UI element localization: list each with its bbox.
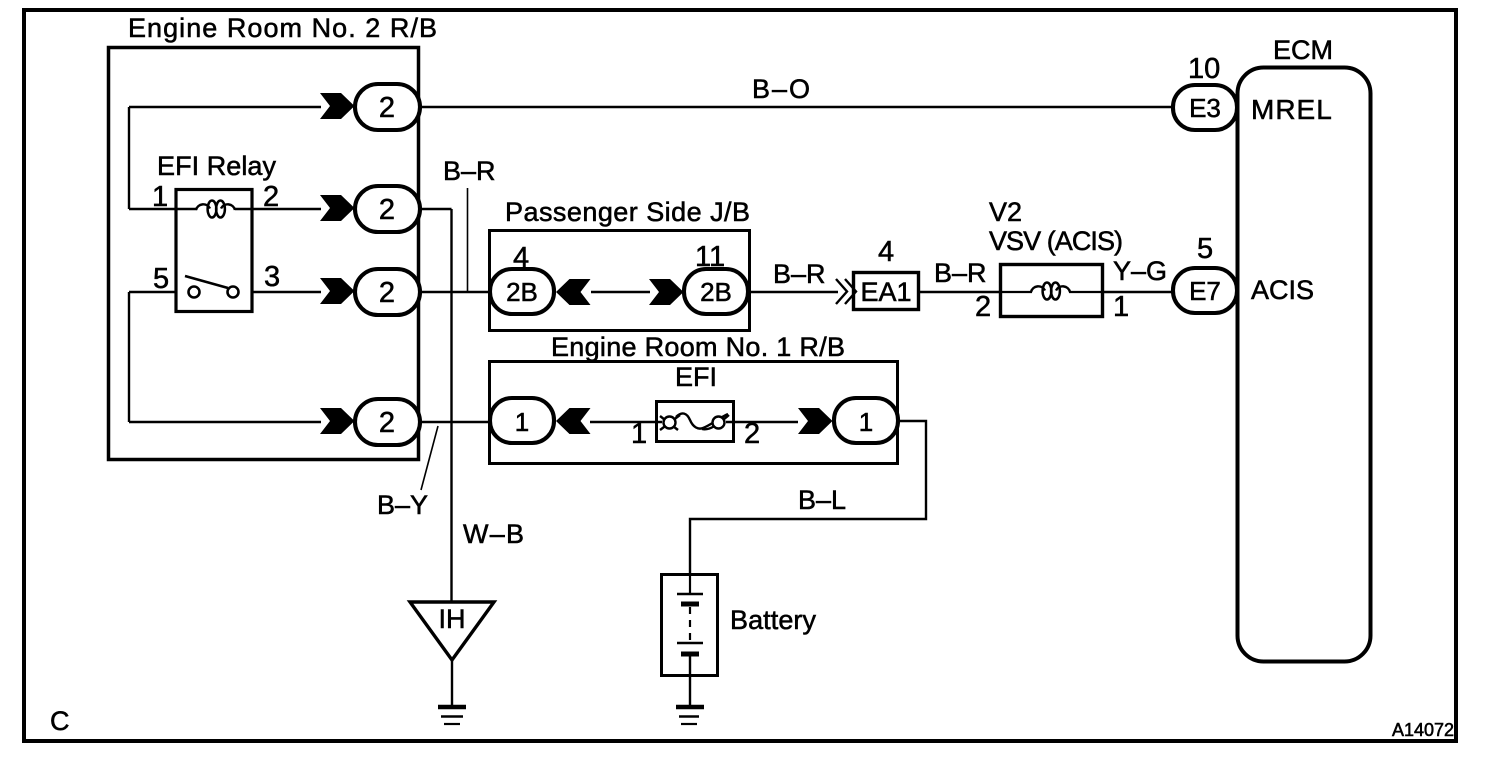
- svg-text:1: 1: [515, 407, 529, 437]
- svg-text:10: 10: [1188, 53, 1220, 85]
- svg-text:B–R: B–R: [934, 258, 987, 288]
- svg-text:2: 2: [379, 407, 395, 439]
- svg-text:2: 2: [263, 181, 279, 213]
- svg-text:11: 11: [695, 241, 725, 273]
- svg-text:4: 4: [513, 242, 529, 274]
- svg-text:Battery: Battery: [730, 605, 817, 635]
- svg-text:1: 1: [859, 407, 873, 437]
- svg-text:EFI: EFI: [675, 362, 717, 392]
- svg-text:W–B: W–B: [463, 519, 524, 549]
- svg-text:EA1: EA1: [860, 277, 911, 307]
- svg-text:B–L: B–L: [798, 485, 846, 515]
- svg-text:B–O: B–O: [752, 74, 810, 104]
- svg-text:1: 1: [1113, 291, 1129, 323]
- svg-text:4: 4: [878, 236, 894, 268]
- svg-text:E7: E7: [1189, 276, 1221, 306]
- svg-text:2: 2: [379, 277, 395, 309]
- svg-text:2: 2: [744, 418, 760, 450]
- svg-text:5: 5: [153, 263, 169, 295]
- svg-text:MREL: MREL: [1251, 94, 1333, 125]
- svg-text:B–R: B–R: [773, 259, 826, 289]
- svg-text:5: 5: [1197, 233, 1213, 265]
- svg-text:Engine Room No. 2 R/B: Engine Room No. 2 R/B: [128, 13, 437, 43]
- svg-text:Y–G: Y–G: [1113, 256, 1167, 286]
- svg-text:2: 2: [975, 291, 991, 323]
- svg-text:Passenger Side J/B: Passenger Side J/B: [505, 197, 750, 227]
- svg-text:EFI Relay: EFI Relay: [157, 151, 277, 181]
- svg-text:Engine Room No. 1 R/B: Engine Room No. 1 R/B: [551, 332, 845, 362]
- svg-text:1: 1: [152, 181, 168, 213]
- svg-text:2: 2: [379, 92, 395, 124]
- svg-text:1: 1: [631, 418, 647, 450]
- svg-text:A14072: A14072: [1392, 720, 1454, 740]
- svg-text:C: C: [50, 706, 70, 736]
- svg-text:VSV (ACIS): VSV (ACIS): [989, 226, 1123, 256]
- svg-text:2B: 2B: [506, 277, 538, 307]
- svg-text:B–Y: B–Y: [377, 490, 428, 520]
- svg-text:B–R: B–R: [443, 156, 496, 186]
- svg-text:ECM: ECM: [1273, 35, 1333, 65]
- svg-text:3: 3: [264, 261, 280, 293]
- svg-text:IH: IH: [439, 604, 466, 634]
- svg-text:2B: 2B: [700, 277, 732, 307]
- svg-text:ACIS: ACIS: [1251, 275, 1314, 305]
- svg-text:E3: E3: [1189, 93, 1221, 123]
- svg-text:2: 2: [379, 194, 395, 226]
- svg-text:V2: V2: [989, 197, 1022, 227]
